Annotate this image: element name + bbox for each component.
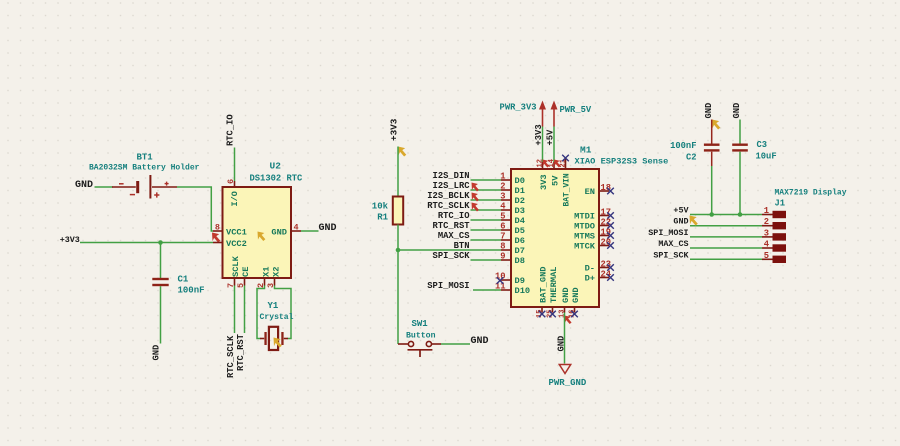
wire R1 to junction — [397, 225, 399, 251]
power symbol PWR_5V — [551, 101, 558, 127]
svg-text:D2: D2 — [515, 196, 525, 206]
svg-text:100nF: 100nF — [670, 141, 696, 151]
svg-text:I2S_LRC: I2S_LRC — [433, 181, 471, 191]
wire SW1 to GND — [441, 343, 470, 345]
M1 pin 8 — [500, 242, 511, 252]
ERC marker gold inside U2 — [258, 232, 266, 242]
M1 pin 9 — [500, 252, 511, 262]
svg-text:GND: GND — [75, 180, 93, 191]
junction +5V C2 — [709, 212, 714, 217]
ERC marker gold at +3V3 — [398, 147, 406, 157]
svg-text:5: 5 — [764, 251, 769, 261]
wire C1 to GND — [160, 286, 162, 343]
U2 pin 2 X1 — [256, 267, 272, 288]
svg-text:C3: C3 — [757, 140, 768, 150]
svg-text:7: 7 — [500, 232, 505, 242]
capacitor C1 — [152, 278, 168, 286]
svg-text:GND: GND — [571, 287, 581, 303]
M1 pin 7 — [500, 232, 511, 242]
wire RTC_IO to U2 pin 6 — [234, 148, 236, 182]
svg-text:VCC2: VCC2 — [226, 239, 247, 249]
svg-text:Crystal: Crystal — [260, 313, 294, 322]
M1 pin 1 — [500, 172, 511, 182]
wire M1 GND to PWR_GND — [564, 313, 566, 364]
svg-text:RTC_RST: RTC_RST — [433, 221, 471, 231]
svg-text:C1: C1 — [178, 275, 189, 285]
svg-text:6: 6 — [226, 179, 236, 184]
svg-text:3: 3 — [764, 228, 769, 238]
wire RTC_SCLK to M1 — [471, 209, 502, 211]
svg-text:PWR_5V: PWR_5V — [560, 105, 592, 115]
svg-text:10uF: 10uF — [756, 152, 777, 162]
ERC marker red at RTC_SCLK — [472, 203, 479, 212]
svg-text:BTN: BTN — [454, 241, 470, 251]
wire I2S_BCLK to M1 — [471, 199, 502, 201]
svg-text:I/O: I/O — [230, 191, 240, 206]
M1 pin 14 5V — [548, 159, 561, 186]
svg-text:MTCK: MTCK — [574, 242, 596, 252]
wire junction to C1 — [160, 243, 162, 279]
resistor R1 — [393, 197, 403, 225]
M1 pin 18 EN — [585, 183, 612, 197]
wire MAX_CS to J1 — [690, 247, 762, 249]
svg-text:MTMS: MTMS — [574, 232, 595, 242]
svg-text:100nF: 100nF — [178, 286, 205, 296]
M1 pin 25 THERMAL — [546, 267, 559, 319]
svg-text:D10: D10 — [515, 286, 531, 296]
wire GND to BT1 — [95, 186, 114, 188]
svg-text:EN: EN — [585, 187, 595, 197]
crystal Y1 — [260, 327, 288, 350]
svg-text:I2S_DIN: I2S_DIN — [433, 171, 470, 181]
switch SW1 — [398, 341, 441, 357]
M1 left pin names D0-D10 — [515, 176, 531, 296]
wire +5V to J1 — [690, 214, 762, 216]
junction +5V C3 — [738, 212, 743, 217]
U2 pin 6 I/O — [226, 179, 240, 207]
svg-text:CE: CE — [241, 267, 251, 277]
no-connect X pin 10 — [497, 277, 504, 284]
svg-text:VCC1: VCC1 — [226, 228, 247, 238]
svg-text:BAT_GND: BAT_GND — [538, 267, 548, 304]
wire I2S_LRC to M1 — [471, 189, 502, 191]
svg-text:1: 1 — [500, 172, 505, 182]
M1 pin 10 no-connect — [495, 272, 511, 282]
ERC marker red at I2S_LRC — [472, 183, 479, 192]
IC M1 body — [511, 169, 599, 307]
svg-text:R1: R1 — [377, 213, 388, 223]
svg-text:SPI_SCK: SPI_SCK — [653, 250, 689, 260]
svg-text:D4: D4 — [515, 216, 525, 226]
no-connect X MTDO — [607, 222, 614, 229]
svg-text:+3V3: +3V3 — [534, 124, 544, 145]
svg-text:THERMAL: THERMAL — [549, 267, 559, 304]
wire X1 to Y1 — [257, 286, 265, 339]
svg-text:8: 8 — [500, 242, 505, 252]
svg-text:D1: D1 — [515, 186, 525, 196]
M1 pin 24 D+ — [585, 270, 612, 284]
wire PWR_5V to M1 5V — [553, 127, 555, 163]
svg-text:GND: GND — [152, 345, 162, 361]
no-connect X MTCK — [607, 242, 614, 249]
svg-text:SCLK: SCLK — [231, 255, 241, 277]
junction +3V3 / C1 — [158, 240, 163, 245]
power symbol PWR_GND — [559, 365, 570, 374]
J1 pin 5 — [762, 251, 786, 263]
svg-text:I2S_BCLK: I2S_BCLK — [427, 191, 470, 201]
no-connect X BAT_VIN — [562, 155, 569, 162]
no-connect X D- — [607, 264, 614, 271]
wire +3V3 to R1 — [397, 147, 399, 197]
M1 pin 12 3V3 — [536, 159, 549, 190]
ERC marker red at I2S_BCLK — [472, 193, 479, 202]
svg-text:D-: D- — [585, 264, 595, 274]
wire GND to J1 — [690, 225, 762, 227]
wire C2 to +5V — [711, 166, 713, 215]
ERC marker gold at C2 GND — [712, 120, 720, 130]
wire +3V3 to U2 VCC2 — [80, 242, 213, 244]
J1 pin 3 — [762, 228, 786, 240]
svg-text:5V: 5V — [550, 175, 560, 186]
M1 pin 5 — [500, 212, 511, 222]
svg-text:GND: GND — [704, 103, 714, 119]
ERC marker red at 5V pin — [554, 160, 561, 168]
J1 pin 1 — [762, 206, 786, 218]
wire RTC_RST — [244, 286, 246, 334]
svg-text:GND: GND — [557, 336, 567, 352]
battery BT1 — [112, 175, 177, 199]
svg-text:SPI_MOSI: SPI_MOSI — [648, 228, 688, 238]
svg-text:+5V: +5V — [545, 129, 555, 146]
svg-text:GND: GND — [271, 228, 287, 238]
ERC marker red at 3V3 pin — [543, 160, 550, 168]
svg-text:3V3: 3V3 — [539, 174, 549, 190]
capacitor C2 — [704, 144, 720, 152]
wire SPI_MOSI to M1 — [473, 289, 501, 291]
M1 pin 16 GND — [568, 287, 581, 318]
wire junction to SW1 — [397, 250, 399, 344]
svg-text:RTC_IO: RTC_IO — [438, 211, 470, 221]
svg-text:9: 9 — [500, 252, 505, 262]
wire C3 to +5V — [739, 152, 741, 215]
capacitor C3 — [732, 144, 748, 152]
M1 pin 4 — [500, 202, 511, 212]
svg-text:GND: GND — [561, 287, 571, 303]
svg-text:XIAO ESP32S3 Sense: XIAO ESP32S3 Sense — [575, 157, 669, 167]
svg-text:BA2032SM Battery Holder: BA2032SM Battery Holder — [89, 164, 200, 173]
svg-text:D+: D+ — [585, 274, 595, 284]
no-connect X D+ — [607, 274, 614, 281]
svg-text:+3V3: +3V3 — [60, 235, 80, 245]
wire MAX_CS to M1 — [471, 239, 502, 241]
ERC marker gold at Y1 — [274, 338, 282, 348]
wire RTC_IO to M1 — [471, 219, 502, 221]
svg-text:X1: X1 — [262, 267, 272, 277]
svg-text:MTDI: MTDI — [574, 212, 595, 222]
M1 pin 11 — [495, 282, 511, 292]
svg-text:D7: D7 — [515, 246, 525, 256]
svg-text:RTC_IO: RTC_IO — [226, 114, 236, 146]
svg-text:2: 2 — [764, 217, 769, 227]
svg-text:6: 6 — [500, 222, 505, 232]
svg-text:+3V3: +3V3 — [389, 118, 400, 141]
svg-text:DS1302 RTC: DS1302 RTC — [250, 174, 304, 184]
svg-text:BT1: BT1 — [137, 153, 154, 163]
svg-text:D3: D3 — [515, 206, 525, 216]
pin C2 to GND label — [711, 120, 713, 144]
wire PWR_3V3 to M1 3V3 — [542, 127, 544, 163]
svg-text:BAT_VIN: BAT_VIN — [563, 173, 572, 206]
M1 pin 13 GND — [558, 287, 571, 318]
M1 pin 15 BAT_GND — [536, 267, 549, 319]
U2 pin 5 CE — [236, 267, 251, 288]
svg-text:U2: U2 — [270, 161, 282, 172]
power symbol PWR_3V3 — [539, 101, 546, 127]
U2 pin VCC2 — [213, 239, 247, 249]
pin C2 bottom — [711, 152, 713, 166]
M1 pin 6 — [500, 222, 511, 232]
J1 pin 4 — [762, 240, 786, 252]
svg-text:RTC_SCLK: RTC_SCLK — [427, 201, 470, 211]
no-connect X GND pin16 — [571, 311, 578, 318]
svg-text:GND: GND — [471, 336, 489, 347]
svg-text:2: 2 — [500, 182, 505, 192]
svg-text:MAX7219 Display: MAX7219 Display — [775, 189, 847, 198]
wire SPI_SCK to J1 — [690, 258, 762, 260]
svg-text:J1: J1 — [775, 199, 786, 209]
svg-text:RTC_RST: RTC_RST — [236, 333, 246, 371]
svg-text:Button: Button — [406, 332, 436, 341]
svg-text:D5: D5 — [515, 226, 525, 236]
svg-text:D9: D9 — [515, 276, 525, 286]
no-connect X MTDI — [607, 212, 614, 219]
svg-text:PWR_3V3: PWR_3V3 — [500, 103, 537, 113]
IC U2 body — [223, 187, 292, 278]
svg-text:10k: 10k — [372, 202, 389, 212]
svg-text:D0: D0 — [515, 176, 525, 186]
wire SPI_SCK to M1 — [471, 259, 502, 261]
wire SPI_MOSI to J1 — [690, 236, 762, 238]
no-connect X THERMAL — [549, 311, 556, 318]
svg-text:SPI_MOSI: SPI_MOSI — [427, 281, 469, 291]
M1 pin 2 — [500, 182, 511, 192]
wire RTC_RST to M1 — [471, 229, 502, 231]
M1 pin 22 MTDO — [574, 218, 611, 232]
wire I2S_DIN to M1 — [471, 179, 502, 181]
junction BTN — [396, 248, 401, 253]
M1 pin 23 D- — [585, 260, 612, 274]
svg-text:D8: D8 — [515, 256, 525, 266]
ERC marker red at GND pin — [565, 316, 572, 325]
ERC marker red at VCC2 — [212, 233, 220, 243]
U2 pin 3 X2 — [266, 267, 282, 288]
M1 pin 17 MTDI — [574, 208, 611, 222]
svg-text:GND: GND — [732, 103, 742, 119]
svg-text:3: 3 — [500, 192, 505, 202]
svg-text:5: 5 — [500, 212, 505, 222]
svg-text:4: 4 — [764, 240, 770, 250]
svg-text:MAX_CS: MAX_CS — [438, 231, 470, 241]
svg-text:4: 4 — [294, 223, 299, 233]
svg-text:GND: GND — [319, 223, 337, 234]
M1 pin 21 BAT_VIN — [559, 159, 571, 207]
svg-text:RTC_SCLK: RTC_SCLK — [226, 335, 236, 378]
J1 pin 2 — [762, 217, 786, 229]
svg-text:C2: C2 — [686, 153, 697, 163]
ERC marker gold at J1 GND — [690, 216, 698, 226]
svg-text:SPI_SCK: SPI_SCK — [433, 251, 471, 261]
svg-text:GND: GND — [673, 217, 688, 227]
svg-text:D6: D6 — [515, 236, 525, 246]
svg-text:+5V: +5V — [673, 206, 689, 216]
M1 pin 20 MTCK — [574, 238, 611, 252]
no-connect X BAT_GND — [539, 311, 546, 318]
wire BTN net — [398, 249, 501, 251]
wire U2 GND pin to label — [301, 230, 319, 232]
svg-text:SW1: SW1 — [412, 319, 429, 329]
svg-text:1: 1 — [764, 206, 769, 216]
U2 pin 4 GND — [271, 223, 301, 238]
no-connect X EN — [607, 188, 614, 195]
svg-text:MAX_CS: MAX_CS — [658, 239, 688, 249]
wire GND to C3 — [739, 120, 741, 144]
svg-text:8: 8 — [215, 223, 220, 233]
no-connect X MTMS — [607, 232, 614, 239]
M1 pin 19 MTMS — [574, 228, 611, 242]
U2 pin 8 VCC1 — [213, 223, 247, 238]
U2 pin 7 SCLK — [226, 255, 241, 288]
svg-text:X2: X2 — [272, 267, 282, 277]
svg-text:PWR_GND: PWR_GND — [549, 378, 587, 388]
wire X2 to Y1 — [275, 286, 292, 339]
svg-text:MTDO: MTDO — [574, 222, 595, 232]
svg-text:M1: M1 — [580, 145, 592, 156]
svg-text:Y1: Y1 — [268, 301, 279, 311]
wire BT1 to U2 VCC1 — [177, 187, 213, 231]
wire RTC_SCLK — [234, 286, 236, 334]
M1 pin 3 — [500, 192, 511, 202]
svg-text:4: 4 — [500, 202, 506, 212]
